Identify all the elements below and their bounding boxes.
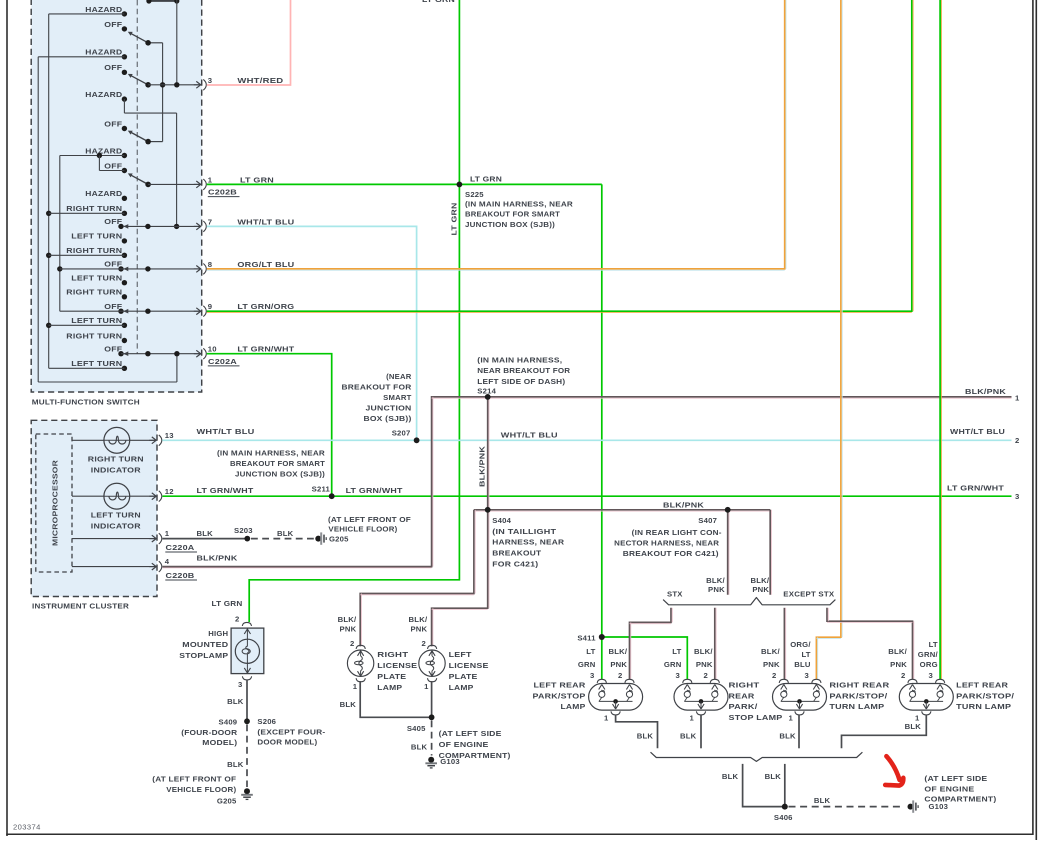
svg-text:LEFT REAR: LEFT REAR xyxy=(534,680,586,689)
svg-text:VEHICLE FLOOR): VEHICLE FLOOR) xyxy=(328,525,397,534)
pin 2 stoplamp xyxy=(235,614,251,626)
wire BLK dashed to G103 xyxy=(411,721,432,756)
label S211 harness note xyxy=(217,449,325,479)
svg-text:LAMP: LAMP xyxy=(377,683,402,692)
svg-text:LEFT TURN: LEFT TURN xyxy=(71,359,122,368)
svg-text:STX: STX xyxy=(667,589,683,598)
svg-text:3: 3 xyxy=(238,680,242,689)
svg-text:(AT LEFT SIDE: (AT LEFT SIDE xyxy=(924,774,987,783)
svg-text:LT: LT xyxy=(929,640,938,649)
label S206 xyxy=(257,717,325,747)
svg-text:LT GRN/WHT: LT GRN/WHT xyxy=(947,483,1004,492)
label G205 location xyxy=(152,775,236,794)
label S214 harness note xyxy=(477,355,570,395)
label S407 note xyxy=(614,516,722,558)
svg-text:BLK: BLK xyxy=(197,529,214,538)
switch lever 4 xyxy=(128,173,151,187)
wire BLK lamp1 xyxy=(616,715,658,749)
label right rear park/stop/turn lamp xyxy=(829,680,889,711)
svg-text:LT: LT xyxy=(672,647,681,656)
svg-text:C220B: C220B xyxy=(166,571,195,580)
wire LT GRN S411 branches xyxy=(602,637,688,679)
svg-text:BLU: BLU xyxy=(794,660,811,669)
svg-text:G205: G205 xyxy=(329,534,349,543)
wire pin7 row xyxy=(123,224,201,229)
svg-text:MICROPROCESSOR: MICROPROCESSOR xyxy=(50,460,59,546)
svg-text:EXCEPT STX: EXCEPT STX xyxy=(783,589,835,598)
svg-text:BLK/PNK: BLK/PNK xyxy=(965,387,1006,396)
wire BLK dashed to G103 right xyxy=(789,796,905,807)
svg-text:LT GRN: LT GRN xyxy=(422,0,455,4)
svg-text:WHT/LT BLU: WHT/LT BLU xyxy=(501,430,558,439)
svg-text:STOPLAMP: STOPLAMP xyxy=(179,651,228,660)
svg-text:(IN MAIN HARNESS,: (IN MAIN HARNESS, xyxy=(477,355,562,364)
label WHT/LT BLU mid xyxy=(501,430,558,439)
svg-text:WHT/LT BLU: WHT/LT BLU xyxy=(950,427,1005,436)
wire BLK right license xyxy=(340,681,432,717)
pins lamp4 xyxy=(901,671,933,680)
svg-text:SMART: SMART xyxy=(383,393,411,402)
svg-text:2: 2 xyxy=(422,639,426,648)
pin 1 left license xyxy=(424,682,429,691)
svg-text:(NEAR: (NEAR xyxy=(386,372,412,381)
svg-text:RIGHT TURN: RIGHT TURN xyxy=(66,246,122,255)
wire left turn rows xyxy=(49,325,125,368)
pin 1 lamp1 xyxy=(604,714,609,723)
svg-text:OFF: OFF xyxy=(104,20,122,29)
wire pin1 row xyxy=(148,183,201,185)
svg-text:LT GRN: LT GRN xyxy=(240,175,274,184)
switch lever 1 xyxy=(128,32,163,46)
svg-text:BREAKOUT FOR SMART: BREAKOUT FOR SMART xyxy=(230,459,325,468)
wire BLK/PNK S404-S407 row xyxy=(474,500,770,511)
svg-text:S206: S206 xyxy=(257,717,276,726)
svg-text:COMPARTMENT): COMPARTMENT) xyxy=(924,795,996,804)
node S411 xyxy=(577,633,604,642)
svg-text:RIGHT: RIGHT xyxy=(729,680,760,689)
wire BLK pin1 xyxy=(162,529,247,538)
wire pin9 row xyxy=(60,309,201,314)
svg-text:(AT LEFT FRONT OF: (AT LEFT FRONT OF xyxy=(328,515,411,524)
svg-text:1: 1 xyxy=(789,714,794,723)
svg-text:NECTOR HARNESS, NEAR: NECTOR HARNESS, NEAR xyxy=(614,539,719,548)
lamp right rear park/stop/turn xyxy=(773,679,827,715)
wire pin3 row xyxy=(148,82,201,87)
svg-text:LT GRN: LT GRN xyxy=(212,599,243,608)
svg-text:GRN/: GRN/ xyxy=(918,650,939,659)
svg-text:OFF: OFF xyxy=(104,161,122,170)
wire BLK/PNK brace drop 4 xyxy=(827,608,914,679)
svg-text:MULTI-FUNCTION SWITCH: MULTI-FUNCTION SWITCH xyxy=(32,398,140,407)
svg-text:1: 1 xyxy=(353,682,358,691)
svg-text:BLK: BLK xyxy=(637,732,654,741)
wire pivot bus x162 xyxy=(160,43,165,142)
svg-text:BLK: BLK xyxy=(905,722,922,731)
wire ORG/LT BLU pin8 xyxy=(207,0,786,270)
svg-text:LT: LT xyxy=(586,647,595,656)
svg-text:BLK/PNK: BLK/PNK xyxy=(478,446,487,487)
svg-text:LEFT SIDE OF DASH): LEFT SIDE OF DASH) xyxy=(477,377,565,386)
svg-text:2: 2 xyxy=(772,671,776,680)
node S405 xyxy=(407,714,435,732)
svg-text:RIGHT TURN: RIGHT TURN xyxy=(66,204,122,213)
svg-text:LT GRN/ORG: LT GRN/ORG xyxy=(237,302,294,311)
svg-text:S211: S211 xyxy=(312,484,331,493)
svg-text:OF ENGINE: OF ENGINE xyxy=(439,740,489,749)
svg-text:LT: LT xyxy=(801,650,810,659)
pin 1 right license xyxy=(353,682,358,691)
wire BLK/PNK brace drop 1 xyxy=(630,608,673,679)
svg-text:8: 8 xyxy=(208,260,213,269)
svg-text:(IN MAIN HARNESS, NEAR: (IN MAIN HARNESS, NEAR xyxy=(465,199,573,208)
microprocessor (box) xyxy=(36,434,72,572)
svg-text:PNK: PNK xyxy=(752,585,769,594)
svg-text:7: 7 xyxy=(208,217,212,226)
svg-text:203374: 203374 xyxy=(13,823,41,832)
svg-text:PARK/STOP: PARK/STOP xyxy=(533,691,586,700)
wire hazard3 step xyxy=(124,99,179,229)
svg-text:RIGHT TURN: RIGHT TURN xyxy=(66,331,122,340)
svg-text:2: 2 xyxy=(618,671,622,680)
node S404 xyxy=(485,507,491,513)
svg-text:BLK/: BLK/ xyxy=(706,576,725,585)
svg-text:COMPARTMENT): COMPARTMENT) xyxy=(439,751,511,760)
svg-text:BREAKOUT: BREAKOUT xyxy=(492,549,541,558)
svg-text:1: 1 xyxy=(604,714,609,723)
svg-text:S411: S411 xyxy=(577,633,596,642)
label S225 harness note xyxy=(465,199,573,229)
wire LT GRN S225 branch down to stoplamp xyxy=(249,0,459,622)
labels lamp1 wires xyxy=(578,647,628,669)
svg-text:PNK: PNK xyxy=(696,660,713,669)
svg-text:BLK: BLK xyxy=(227,697,244,706)
connector label C202B xyxy=(208,188,240,197)
label left rear park/stop/turn lamp xyxy=(956,680,1015,711)
wire hazard1 to bus xyxy=(49,13,125,15)
svg-text:INDICATOR: INDICATOR xyxy=(91,522,141,531)
svg-text:LT GRN/WHT: LT GRN/WHT xyxy=(197,486,254,495)
lamp left rear park/stop xyxy=(589,679,643,715)
wire pin10 row xyxy=(121,351,201,356)
lamp right license plate xyxy=(347,645,373,682)
svg-text:BREAKOUT FOR SMART: BREAKOUT FOR SMART xyxy=(465,210,560,219)
svg-text:S404: S404 xyxy=(492,516,511,525)
wire hazard2 xyxy=(38,56,124,58)
pin numbers multi-function switch xyxy=(208,76,217,354)
svg-text:BLK/: BLK/ xyxy=(694,647,713,656)
pin 1 lamp2 xyxy=(690,714,695,723)
wire LT GRN/WHT pin10 xyxy=(207,345,332,497)
wire BLK stoplamp xyxy=(227,680,247,721)
label LT GRN stoplamp xyxy=(212,599,243,608)
wire cluster pin1 row xyxy=(72,538,156,540)
instrument cluster (box) xyxy=(31,420,157,610)
svg-text:WHT/LT BLU: WHT/LT BLU xyxy=(237,217,294,226)
svg-text:HIGH: HIGH xyxy=(208,629,228,638)
wire BLK left license xyxy=(431,681,433,717)
label BLK/PNK vertical xyxy=(478,446,487,487)
wire bus x38 xyxy=(38,57,177,382)
wire LT GRN pin1 to S225 and down xyxy=(207,175,602,637)
svg-text:MOUNTED: MOUNTED xyxy=(182,640,228,649)
svg-text:INDICATOR: INDICATOR xyxy=(91,466,141,475)
label left turn indicator xyxy=(91,511,141,531)
svg-text:1: 1 xyxy=(1015,393,1020,402)
ground G205 (down) xyxy=(217,788,253,805)
label LT GRN/WHT mid xyxy=(346,486,403,495)
svg-text:REAR: REAR xyxy=(729,691,755,700)
svg-text:(IN REAR LIGHT CON-: (IN REAR LIGHT CON- xyxy=(632,528,722,537)
svg-text:LEFT TURN: LEFT TURN xyxy=(91,511,141,520)
label G103 right location xyxy=(924,774,996,804)
svg-text:NEAR BREAKOUT FOR: NEAR BREAKOUT FOR xyxy=(477,366,570,375)
svg-text:PARK/: PARK/ xyxy=(729,702,759,711)
node S409/S206 xyxy=(244,718,250,724)
svg-text:S207: S207 xyxy=(392,429,411,438)
svg-text:HARNESS, NEAR: HARNESS, NEAR xyxy=(492,538,564,547)
page border left xyxy=(6,0,8,836)
wire BLK dashed to G205 xyxy=(251,529,315,538)
svg-text:S409: S409 xyxy=(219,718,238,727)
connector C220 pins xyxy=(149,435,162,572)
label S207 xyxy=(342,372,412,438)
wire BLK/PNK brace drop 3 xyxy=(784,608,785,679)
svg-text:ORG/LT BLU: ORG/LT BLU xyxy=(237,260,294,269)
svg-text:BLK: BLK xyxy=(227,760,244,769)
svg-text:RIGHT TURN: RIGHT TURN xyxy=(66,288,122,297)
svg-text:LT GRN: LT GRN xyxy=(450,202,459,235)
svg-text:C202A: C202A xyxy=(208,357,237,366)
svg-text:HAZARD: HAZARD xyxy=(85,90,122,99)
wire BLK/PNK pin4 to S214 xyxy=(162,397,1011,568)
svg-text:BLK: BLK xyxy=(340,700,357,709)
wire LT GRN/WHT pin12 xyxy=(162,486,1011,496)
right edge labels 1 2 3 xyxy=(965,387,1020,402)
svg-text:(AT LEFT FRONT OF: (AT LEFT FRONT OF xyxy=(152,775,236,784)
svg-text:LT GRN: LT GRN xyxy=(470,175,502,184)
switch position labels xyxy=(66,5,122,368)
svg-text:LICENSE: LICENSE xyxy=(377,661,417,670)
svg-text:S214: S214 xyxy=(477,386,496,395)
svg-text:3: 3 xyxy=(929,671,933,680)
svg-text:INSTRUMENT CLUSTER: INSTRUMENT CLUSTER xyxy=(32,602,129,611)
svg-text:10: 10 xyxy=(208,345,217,354)
switch lever 2 xyxy=(128,74,151,88)
wire bus x48 xyxy=(46,14,51,368)
svg-text:PNK: PNK xyxy=(340,625,357,634)
label left rear park/stop lamp xyxy=(533,680,586,711)
svg-text:(IN MAIN HARNESS, NEAR: (IN MAIN HARNESS, NEAR xyxy=(217,449,325,458)
svg-text:13: 13 xyxy=(165,431,174,440)
svg-text:RIGHT REAR: RIGHT REAR xyxy=(829,680,889,689)
wire LT GRN/ORG to lamp4 xyxy=(940,0,941,679)
node S203 xyxy=(234,526,253,542)
svg-text:BLK/: BLK/ xyxy=(409,615,428,624)
lamp right rear park/stop xyxy=(674,679,728,715)
svg-text:ORG/: ORG/ xyxy=(790,640,811,649)
svg-text:BLK/PNK: BLK/PNK xyxy=(663,500,704,509)
svg-text:LICENSE: LICENSE xyxy=(449,661,489,670)
svg-text:2: 2 xyxy=(1015,436,1019,445)
svg-text:C202B: C202B xyxy=(208,188,237,197)
wire BLK/PNK S407 to brace xyxy=(728,510,729,595)
multi-function switch (box) xyxy=(31,0,202,407)
svg-text:3: 3 xyxy=(590,671,594,680)
svg-text:9: 9 xyxy=(208,302,212,311)
svg-text:LEFT: LEFT xyxy=(449,650,472,659)
svg-text:BLK: BLK xyxy=(722,772,739,781)
svg-text:(FOUR-DOOR: (FOUR-DOOR xyxy=(181,728,237,737)
svg-text:BREAKOUT FOR: BREAKOUT FOR xyxy=(342,382,412,391)
svg-text:3: 3 xyxy=(676,671,680,680)
svg-text:S405: S405 xyxy=(407,724,426,733)
wire ORG/LT BLU to lamp3 xyxy=(816,0,842,679)
svg-text:3: 3 xyxy=(1015,492,1019,501)
svg-text:3: 3 xyxy=(208,76,212,85)
wire BLK lamp3 xyxy=(779,715,799,749)
svg-text:2: 2 xyxy=(235,614,239,623)
svg-text:BOX (SJB)): BOX (SJB)) xyxy=(364,414,412,423)
svg-text:(IN TAILLIGHT: (IN TAILLIGHT xyxy=(492,527,556,536)
svg-text:S203: S203 xyxy=(234,526,253,535)
svg-text:GRN: GRN xyxy=(578,660,596,669)
lamp high mounted stoplamp xyxy=(231,628,264,674)
svg-text:(EXCEPT FOUR-: (EXCEPT FOUR- xyxy=(257,727,325,736)
svg-text:PLATE: PLATE xyxy=(377,672,406,681)
pin 3 stoplamp xyxy=(238,676,252,689)
svg-text:BLK/: BLK/ xyxy=(750,576,769,585)
pin 2 left license xyxy=(422,639,426,648)
svg-text:2: 2 xyxy=(901,671,905,680)
svg-text:HAZARD: HAZARD xyxy=(85,189,122,198)
svg-text:BLK/: BLK/ xyxy=(338,615,357,624)
labels lamp2 wires xyxy=(664,647,714,669)
svg-text:WHT/LT BLU: WHT/LT BLU xyxy=(197,427,255,436)
wire pin8 row xyxy=(60,266,201,271)
svg-text:DOOR MODEL): DOOR MODEL) xyxy=(257,738,317,747)
label right turn indicator xyxy=(88,455,144,475)
svg-text:(AT LEFT SIDE: (AT LEFT SIDE xyxy=(439,729,502,738)
svg-text:MODEL): MODEL) xyxy=(202,738,237,747)
svg-text:LAMP: LAMP xyxy=(449,683,474,692)
svg-text:BLK/: BLK/ xyxy=(888,647,907,656)
svg-text:FOR C421): FOR C421) xyxy=(492,560,538,569)
bulb right turn indicator xyxy=(72,427,156,453)
svg-text:PNK: PNK xyxy=(890,660,907,669)
wire hazard bus (top remnant row) xyxy=(146,0,179,85)
wire BLK/PNK S404 to left license lamp xyxy=(432,510,489,647)
wire WHT/LT BLU pin7 xyxy=(207,217,417,440)
label G103 location xyxy=(439,729,511,760)
label LT GRN vertical xyxy=(450,202,459,235)
page border right (double) xyxy=(1033,0,1036,840)
label high mounted stoplamp xyxy=(179,629,228,660)
wire BLK dashed to G205 xyxy=(227,725,247,788)
ground G205 (side) xyxy=(315,532,349,544)
pin numbers instrument cluster xyxy=(165,431,174,566)
svg-text:G205: G205 xyxy=(217,797,237,806)
wire BLK to S406 left xyxy=(722,764,785,807)
svg-text:BLK/PNK: BLK/PNK xyxy=(197,554,238,563)
pin 2 right license xyxy=(350,639,354,648)
svg-text:BLK: BLK xyxy=(680,732,697,741)
svg-text:12: 12 xyxy=(165,487,174,496)
svg-text:LAMP: LAMP xyxy=(561,702,586,711)
page border bottom xyxy=(6,833,1032,835)
wire hazard4 row xyxy=(60,153,125,158)
bulb left turn indicator xyxy=(72,483,156,509)
svg-text:S406: S406 xyxy=(774,813,793,822)
svg-text:1: 1 xyxy=(165,529,170,538)
svg-text:2: 2 xyxy=(350,639,354,648)
svg-text:BREAKOUT FOR C421): BREAKOUT FOR C421) xyxy=(623,549,719,558)
svg-text:BLK: BLK xyxy=(277,529,294,538)
svg-text:1: 1 xyxy=(424,682,429,691)
label BLK/PNK right license xyxy=(338,615,357,633)
svg-text:OF ENGINE: OF ENGINE xyxy=(924,784,974,793)
wire WHT/LT BLU pin13 xyxy=(162,427,1011,440)
svg-text:3: 3 xyxy=(805,671,809,680)
brace STX / EXCEPT STX xyxy=(663,589,835,604)
svg-text:PARK/STOP/: PARK/STOP/ xyxy=(829,691,888,700)
node S214 xyxy=(485,394,491,400)
svg-text:S225: S225 xyxy=(465,190,484,199)
node S225 xyxy=(457,175,503,199)
svg-text:TURN LAMP: TURN LAMP xyxy=(956,702,1011,711)
brace ground bus xyxy=(651,752,863,761)
svg-text:GRN: GRN xyxy=(664,660,682,669)
sheet number 203374 xyxy=(13,823,41,832)
svg-text:PNK: PNK xyxy=(763,660,780,669)
svg-text:HAZARD: HAZARD xyxy=(85,5,122,14)
svg-text:STOP LAMP: STOP LAMP xyxy=(729,713,783,722)
wire BLK/PNK S214 down to S404 xyxy=(488,397,489,510)
svg-text:PNK: PNK xyxy=(410,625,427,634)
label right rear park/stop lamp xyxy=(729,680,783,722)
svg-text:JUNCTION BOX (SJB)): JUNCTION BOX (SJB)) xyxy=(465,220,555,229)
label S404 note xyxy=(492,516,564,569)
svg-text:1: 1 xyxy=(208,175,213,184)
svg-text:LEFT REAR: LEFT REAR xyxy=(956,680,1008,689)
svg-text:HAZARD: HAZARD xyxy=(85,48,122,57)
label right license plate lamp xyxy=(377,650,417,692)
lamp left rear park/stop/turn xyxy=(899,679,953,715)
labels lamp3 wires xyxy=(761,640,811,669)
connector label C220B xyxy=(165,571,197,580)
wire cluster pin4 row xyxy=(72,566,156,568)
annotation red arrow xyxy=(885,756,903,785)
svg-text:PARK/STOP/: PARK/STOP/ xyxy=(956,691,1015,700)
svg-text:LT GRN/WHT: LT GRN/WHT xyxy=(237,345,294,354)
pins lamp3 xyxy=(772,671,809,680)
node S211 xyxy=(312,484,335,499)
svg-text:LEFT TURN: LEFT TURN xyxy=(71,232,122,241)
svg-text:PLATE: PLATE xyxy=(449,672,478,681)
ground G103 (side) xyxy=(908,800,949,812)
wire BLK/PNK brace drop 2 xyxy=(715,608,716,679)
svg-text:JUNCTION: JUNCTION xyxy=(366,404,412,413)
svg-text:C220A: C220A xyxy=(166,543,195,552)
label BLK/PNK left license xyxy=(409,615,428,633)
svg-text:BLK: BLK xyxy=(411,743,428,752)
wire BLK/PNK S404 to right license lamp xyxy=(360,510,475,647)
label LT GRN cut at top xyxy=(422,0,455,4)
wire BLK lamp2 xyxy=(680,715,701,749)
svg-text:WHT/RED: WHT/RED xyxy=(237,76,283,85)
switch contact dots xyxy=(118,11,127,371)
svg-text:OFF: OFF xyxy=(104,119,122,128)
wire LT GRN/ORG pin9 xyxy=(207,0,913,313)
